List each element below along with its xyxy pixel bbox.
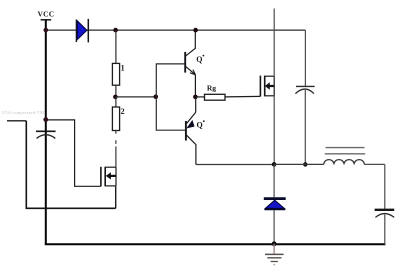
wire left loop	[26, 121, 115, 209]
wire SW down to diode D2	[273, 164, 275, 197]
node on rail above R1	[113, 28, 118, 33]
wire VCC heavy vertical	[45, 20, 47, 244]
node gate tap junction	[43, 117, 48, 122]
wire R1 top lead	[115, 30, 117, 63]
svg-text:U54-compressed-TM: U54-compressed-TM	[2, 110, 44, 115]
capacitor input	[36, 131, 56, 138]
wire output branch down	[384, 164, 386, 209]
node divider junction	[113, 95, 118, 100]
capacitor bootstrap	[295, 86, 314, 164]
ground	[265, 244, 284, 265]
wire base rail	[156, 64, 186, 130]
transistor Q1	[185, 30, 204, 97]
wire divider to base rail	[115, 96, 155, 98]
diode D1	[76, 19, 88, 43]
inductor L1 coil	[324, 160, 364, 165]
wire emitter junction to Rg	[195, 96, 204, 98]
mosfet Q3 low-side	[101, 167, 116, 187]
wire Q3 source down	[115, 186, 117, 208]
svg-text:Q: Q	[197, 120, 203, 129]
capacitor output	[375, 210, 395, 245]
node ground junction	[272, 241, 277, 246]
node Q1 collector on rail	[193, 28, 198, 33]
resistor R2	[112, 107, 119, 131]
svg-text:Rg: Rg	[207, 84, 216, 93]
wire inductor to output corner	[364, 163, 385, 165]
wire Rg to gate	[225, 95, 260, 98]
wire M1 source down to SW	[273, 96, 275, 165]
wire SW to inductor	[274, 163, 324, 165]
node VCC line tap	[44, 28, 49, 33]
wire ground heavy bottom rail	[45, 243, 386, 245]
node SW junction	[272, 162, 277, 167]
inductor L1 core lines	[326, 147, 365, 149]
transistor Q2	[186, 97, 205, 165]
resistor R1	[112, 63, 119, 85]
diode D2 freewheeling	[264, 199, 286, 210]
svg-text:Q: Q	[196, 55, 202, 64]
svg-text:VCC: VCC	[38, 10, 55, 19]
wire R2 bottom lead to Q3 drain	[115, 131, 117, 168]
wire top supply rail	[46, 29, 306, 31]
wire R1 to R2	[115, 85, 117, 97]
svg-text:2: 2	[121, 107, 125, 116]
power VCC bar symbol	[41, 19, 52, 21]
wire R2 top lead	[115, 97, 117, 107]
node base rail junction	[154, 94, 159, 99]
wire M1 drain up	[273, 9, 275, 77]
wire bootstrap branch from rail	[304, 30, 306, 86]
node emitter junction	[193, 95, 198, 100]
resistor Rg	[205, 94, 226, 100]
svg-text:1: 1	[121, 64, 125, 73]
wire Q2 collector to SW node	[196, 164, 274, 166]
wire left input stub	[7, 120, 26, 122]
mosfet M1 high-side	[260, 76, 274, 97]
node bootstrap bottom junction	[303, 162, 307, 166]
wire Q3 gate to left rail	[46, 120, 101, 186]
wire D2 anode down	[273, 210, 275, 244]
